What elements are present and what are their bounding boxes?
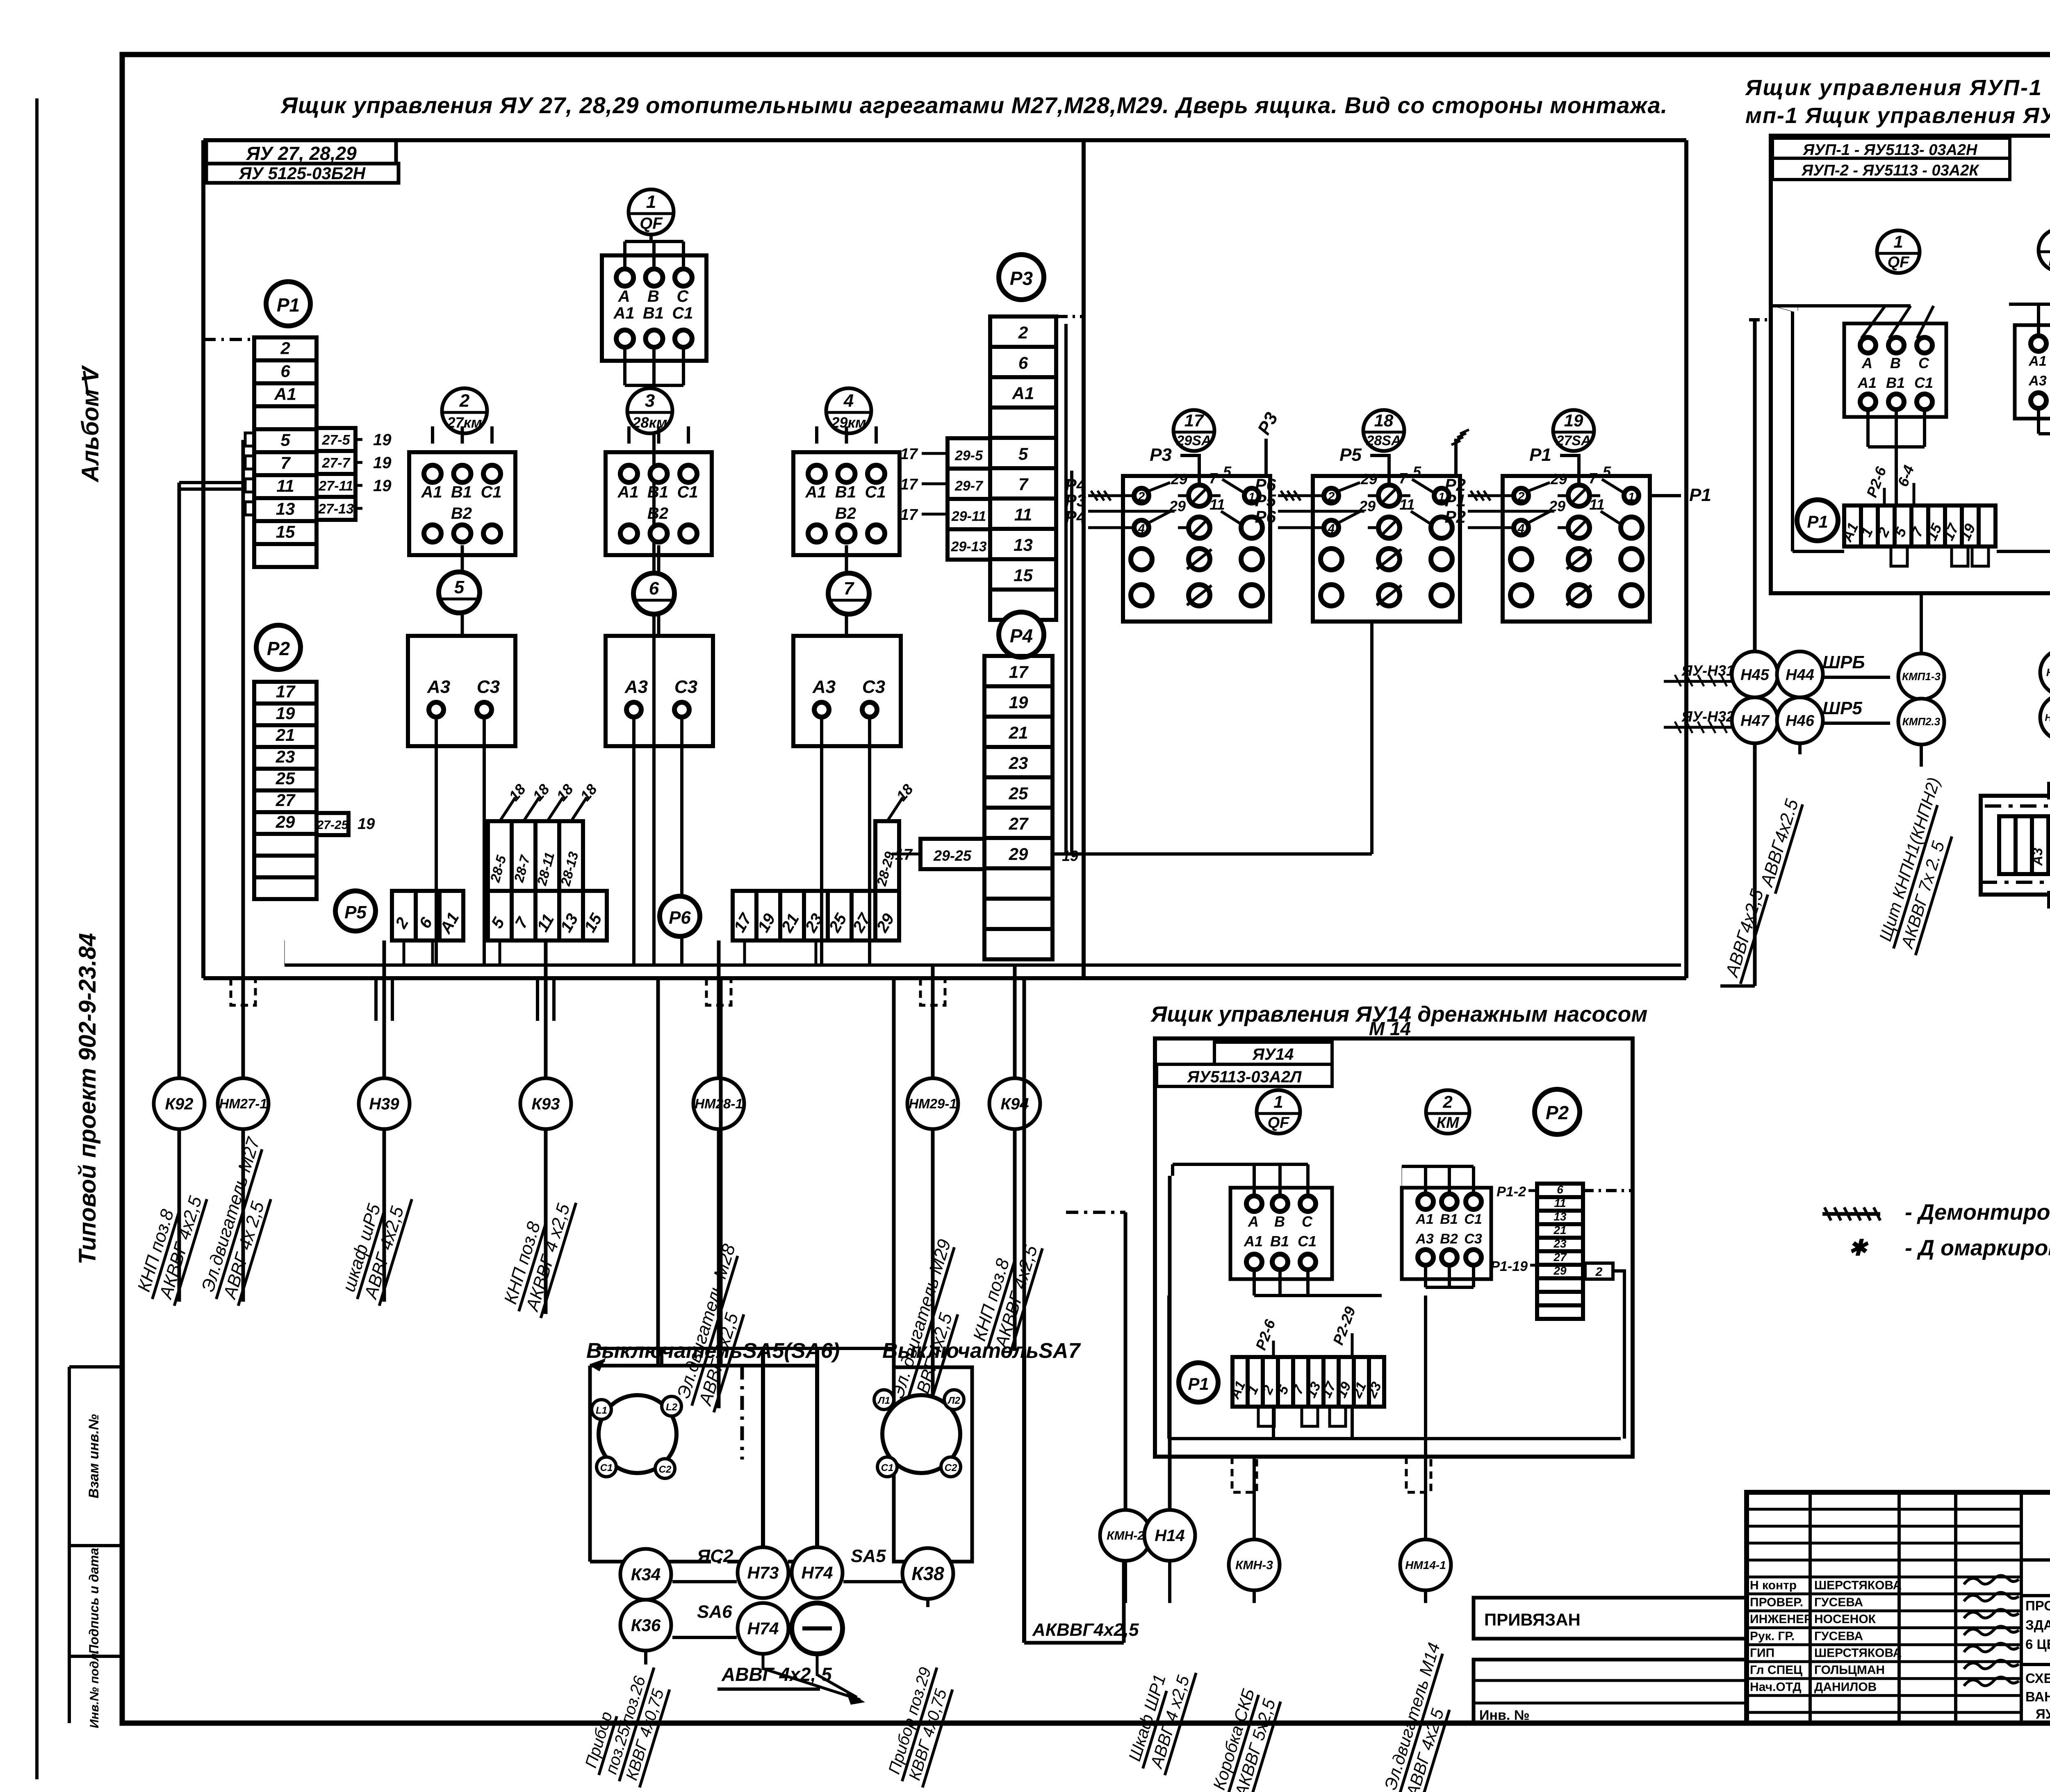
svg-text:21: 21 — [276, 725, 295, 745]
svg-text:29-7: 29-7 — [954, 478, 984, 494]
svg-text:6: 6 — [280, 361, 290, 380]
svg-text:ГОЛЬЦМАН: ГОЛЬЦМАН — [1814, 1663, 1885, 1677]
svg-text:А1: А1 — [1415, 1211, 1433, 1227]
svg-text:ЯУ 27, 28,29: ЯУ 27, 28,29 — [246, 143, 357, 164]
svg-text:Ящик управления ЯУП-1 п: Ящик управления ЯУП-1 приточным вентилят… — [1745, 75, 2050, 100]
svg-text:ШЕРСТЯКОВА: ШЕРСТЯКОВА — [1814, 1646, 1902, 1660]
svg-text:В2: В2 — [647, 504, 668, 522]
svg-text:13: 13 — [1014, 535, 1033, 554]
svg-text:А3: А3 — [427, 677, 450, 697]
svg-text:29: 29 — [1553, 1264, 1567, 1277]
svg-text:С1: С1 — [1298, 1233, 1317, 1250]
svg-text:В1: В1 — [1270, 1233, 1289, 1250]
svg-text:В1: В1 — [1440, 1211, 1458, 1227]
svg-text:11: 11 — [1399, 496, 1414, 513]
svg-text:А3: А3 — [624, 677, 648, 697]
svg-text:С1: С1 — [672, 304, 693, 322]
svg-text:17: 17 — [276, 682, 296, 701]
svg-text:19: 19 — [276, 704, 295, 723]
svg-text:В1: В1 — [1886, 374, 1905, 391]
svg-text:29: 29 — [276, 812, 295, 831]
svg-text:SA6: SA6 — [697, 1602, 732, 1622]
svg-text:В1: В1 — [647, 483, 668, 501]
svg-text:27-11: 27-11 — [318, 478, 353, 494]
svg-text:27-13: 27-13 — [318, 501, 354, 517]
svg-text:А: А — [618, 287, 630, 305]
svg-text:Подпись и дата: Подпись и дата — [87, 1548, 101, 1654]
svg-text:ИНЖЕНЕР: ИНЖЕНЕР — [1750, 1612, 1812, 1626]
svg-text:QF: QF — [1888, 254, 1910, 271]
svg-text:А1: А1 — [617, 483, 638, 501]
svg-text:29: 29 — [1549, 498, 1565, 515]
svg-text:А1: А1 — [613, 304, 635, 322]
svg-text:Н74: Н74 — [747, 1619, 779, 1638]
svg-text:В: В — [1274, 1213, 1285, 1230]
svg-text:27: 27 — [1009, 814, 1029, 833]
svg-text:Р2: Р2 — [1546, 1102, 1569, 1123]
svg-text:19: 19 — [358, 815, 375, 833]
svg-text:19: 19 — [1009, 692, 1028, 712]
svg-text:А3: А3 — [2028, 373, 2047, 389]
svg-text:Р6: Р6 — [1255, 507, 1276, 526]
svg-text:11: 11 — [276, 476, 294, 495]
svg-text:С3: С3 — [674, 677, 697, 697]
svg-text:11: 11 — [1589, 496, 1604, 513]
svg-text:ПРОВЕР.: ПРОВЕР. — [1750, 1596, 1803, 1609]
svg-text:1: 1 — [646, 192, 656, 212]
svg-text:Нач.ОТД: Нач.ОТД — [1750, 1680, 1802, 1694]
svg-text:29-5: 29-5 — [954, 448, 983, 463]
svg-text:ЯУП-2 - ЯУ5113 - 03А2К: ЯУП-2 - ЯУ5113 - 03А2К — [1801, 162, 1979, 179]
svg-text:Р5: Р5 — [1339, 445, 1362, 465]
svg-text:КМН-3: КМН-3 — [1235, 1559, 1273, 1572]
svg-text:КМ: КМ — [2048, 252, 2050, 269]
svg-text:27-5: 27-5 — [321, 432, 350, 448]
svg-text:В2: В2 — [451, 504, 472, 522]
svg-text:C1: C1 — [600, 1462, 613, 1473]
svg-text:В: В — [1890, 355, 1901, 371]
svg-text:1: 1 — [1438, 490, 1445, 503]
svg-text:27: 27 — [1553, 1251, 1567, 1264]
svg-text:2: 2 — [1138, 490, 1145, 503]
svg-text:ЗДАНИЕ С ЧВОЗДУХОДУВКАМИ ТВ-80: ЗДАНИЕ С ЧВОЗДУХОДУВКАМИ ТВ-80-1,6 И — [2025, 1617, 2050, 1633]
svg-text:А1: А1 — [1244, 1233, 1263, 1250]
svg-text:С: С — [1302, 1213, 1313, 1230]
svg-text:ШЕРСТЯКОВА: ШЕРСТЯКОВА — [1814, 1579, 1902, 1592]
svg-text:4: 4 — [1517, 522, 1525, 535]
svg-text:27-25: 27-25 — [317, 818, 349, 832]
svg-text:QF: QF — [1268, 1114, 1290, 1132]
svg-text:29-25: 29-25 — [933, 847, 972, 864]
svg-text:НМ28-1: НМ28-1 — [695, 1096, 743, 1111]
svg-text:✱: ✱ — [1848, 1236, 1869, 1260]
svg-text:Н14: Н14 — [1155, 1527, 1184, 1545]
svg-text:29-13: 29-13 — [951, 539, 987, 554]
svg-text:17: 17 — [1184, 411, 1204, 430]
svg-text:ЯУ5113-03А2Л: ЯУ5113-03А2Л — [1187, 1068, 1302, 1086]
svg-text:17: 17 — [900, 506, 918, 524]
svg-text:23: 23 — [1553, 1237, 1567, 1250]
svg-text:КМ: КМ — [1436, 1114, 1459, 1132]
svg-text:Л2: Л2 — [947, 1395, 960, 1406]
svg-text:ДАНИЛОВ: ДАНИЛОВ — [1814, 1680, 1877, 1694]
svg-text:2: 2 — [1595, 1265, 1603, 1279]
svg-text:7: 7 — [280, 453, 291, 472]
svg-text:Взам инв.№: Взам инв.№ — [86, 1414, 102, 1498]
svg-text:7: 7 — [844, 578, 855, 599]
svg-text:АКВВГ4х2,5: АКВВГ4х2,5 — [1032, 1620, 1139, 1640]
svg-text:19: 19 — [373, 431, 392, 449]
svg-text:6: 6 — [1557, 1183, 1563, 1196]
svg-text:ЯУ 5125-03Б2Н: ЯУ 5125-03Б2Н — [239, 164, 366, 183]
svg-text:11: 11 — [1209, 496, 1225, 513]
svg-text:НОСЕНОК: НОСЕНОК — [1814, 1612, 1876, 1626]
svg-text:С: С — [676, 287, 689, 305]
svg-text:НМ29-1: НМ29-1 — [909, 1096, 957, 1111]
svg-text:Н45: Н45 — [1740, 666, 1770, 683]
svg-text:29SA: 29SA — [1176, 433, 1211, 449]
svg-text:7: 7 — [1209, 470, 1218, 487]
svg-text:4: 4 — [1138, 522, 1145, 535]
svg-text:29: 29 — [1360, 471, 1377, 487]
svg-text:Р1: Р1 — [277, 294, 300, 316]
svg-text:1: 1 — [1628, 490, 1635, 503]
svg-text:С1: С1 — [677, 483, 698, 501]
svg-text:К93: К93 — [531, 1095, 560, 1113]
svg-text:27SA: 27SA — [1556, 433, 1591, 449]
svg-text:Р3: Р3 — [1010, 268, 1033, 289]
svg-text:25: 25 — [276, 769, 295, 788]
svg-text:Р4: Р4 — [1065, 507, 1086, 526]
svg-text:Р1-2: Р1-2 — [1496, 1184, 1526, 1200]
svg-text:мп-1 Ящик управления ЯУП-2: мп-1 Ящик управления ЯУП-2 приточным вен… — [1745, 103, 2050, 128]
svg-text:К92: К92 — [165, 1095, 193, 1113]
svg-text:17: 17 — [900, 476, 918, 493]
svg-text:К38: К38 — [911, 1563, 944, 1584]
svg-text:Р2: Р2 — [267, 638, 290, 659]
svg-text:1: 1 — [1273, 1092, 1283, 1111]
svg-text:19: 19 — [373, 477, 392, 495]
svg-text:1: 1 — [1248, 490, 1255, 503]
svg-text:29: 29 — [1171, 471, 1187, 487]
svg-text:L1: L1 — [596, 1405, 607, 1416]
svg-text:4: 4 — [843, 391, 854, 411]
svg-text:23: 23 — [1009, 753, 1028, 772]
svg-text:Н47: Н47 — [1740, 712, 1770, 729]
svg-text:В2: В2 — [1440, 1231, 1458, 1247]
svg-text:5: 5 — [1223, 463, 1232, 480]
svg-text:L2: L2 — [666, 1402, 678, 1413]
svg-text:29: 29 — [1009, 844, 1028, 863]
svg-text:Р4: Р4 — [1010, 625, 1033, 647]
svg-text:Н46: Н46 — [1786, 712, 1815, 729]
svg-text:11: 11 — [1014, 505, 1032, 524]
svg-text:Р2: Р2 — [1445, 507, 1466, 526]
svg-text:НМ27-1: НМ27-1 — [219, 1096, 267, 1111]
svg-text:Альбом V: Альбом V — [77, 365, 104, 483]
svg-text:НМ14-1: НМ14-1 — [1405, 1559, 1446, 1571]
svg-text:29: 29 — [1550, 471, 1567, 487]
svg-text:ЯС2: ЯС2 — [697, 1546, 733, 1566]
svg-text:СХЕМА ПОДКЛЮЧЕНИЯ ЭЛЕКТРООБОРУ: СХЕМА ПОДКЛЮЧЕНИЯ ЭЛЕКТРООБОРУДО- — [2025, 1671, 2050, 1686]
svg-text:Рук. ГР.: Рук. ГР. — [1750, 1629, 1795, 1643]
svg-text:17: 17 — [1009, 662, 1029, 681]
svg-text:Гл СПЕЦ: Гл СПЕЦ — [1750, 1663, 1802, 1677]
svg-text:А3: А3 — [812, 677, 836, 697]
svg-text:ВыключательSA5(SA6): ВыключательSA5(SA6) — [586, 1339, 840, 1363]
svg-text:1: 1 — [1893, 232, 1903, 251]
svg-text:25: 25 — [1009, 783, 1028, 803]
svg-text:Р1: Р1 — [1188, 1374, 1209, 1394]
svg-text:28SA: 28SA — [1366, 433, 1401, 449]
svg-text:Н контр: Н контр — [1750, 1579, 1797, 1592]
svg-text:ШР5: ШР5 — [1822, 698, 1862, 718]
svg-text:Н73: Н73 — [747, 1563, 779, 1583]
svg-text:18: 18 — [1374, 411, 1394, 430]
svg-text:5: 5 — [1603, 463, 1611, 480]
svg-text:А3: А3 — [1415, 1231, 1434, 1247]
svg-text:Ящик управления ЯУ 27, 28,29: Ящик управления ЯУ 27, 28,29 отопительны… — [280, 92, 1667, 118]
svg-text:С1: С1 — [481, 483, 501, 501]
svg-text:ЯУ-Н31: ЯУ-Н31 — [1681, 662, 1734, 679]
svg-text:5: 5 — [454, 577, 465, 597]
svg-text:6 ЦЕНТРИФУГАМИ ОГШ-352К-03: 6 ЦЕНТРИФУГАМИ ОГШ-352К-03 — [2025, 1637, 2050, 1652]
svg-text:ГУСЕВА: ГУСЕВА — [1814, 1629, 1863, 1643]
svg-text:21: 21 — [1009, 723, 1028, 742]
svg-text:2: 2 — [459, 391, 470, 411]
svg-text:С3: С3 — [477, 677, 500, 697]
svg-text:Р1-19: Р1-19 — [1490, 1259, 1528, 1274]
svg-text:ЯУ14: ЯУ14 — [1252, 1045, 1294, 1063]
svg-text:Вс: Вс — [2046, 848, 2050, 866]
svg-text:Р3: Р3 — [1150, 445, 1172, 465]
svg-text:С1: С1 — [881, 1462, 894, 1473]
svg-text:В1: В1 — [835, 483, 856, 501]
svg-text:КМП1-3: КМП1-3 — [1902, 670, 1941, 683]
svg-text:С2: С2 — [945, 1462, 957, 1473]
svg-text:7: 7 — [1399, 470, 1408, 487]
svg-text:27: 27 — [276, 790, 296, 810]
svg-text:ВыключательSA7: ВыключательSA7 — [882, 1339, 1081, 1363]
svg-text:19: 19 — [373, 454, 392, 472]
svg-text:В2: В2 — [835, 504, 856, 522]
svg-text:- Демонтировать: - Демонтировать — [1905, 1200, 2050, 1225]
svg-text:С1: С1 — [1914, 374, 1933, 391]
svg-text:С1: С1 — [1464, 1211, 1482, 1227]
svg-text:19: 19 — [1564, 411, 1583, 430]
svg-text:4: 4 — [1328, 522, 1335, 535]
svg-text:ГУСЕВА: ГУСЕВА — [1814, 1596, 1863, 1609]
svg-text:ГИП: ГИП — [1750, 1646, 1774, 1660]
svg-text:Н74: Н74 — [801, 1563, 833, 1583]
svg-text:Р1: Р1 — [1529, 445, 1551, 465]
svg-text:А1: А1 — [2028, 353, 2046, 369]
svg-text:ПРИВЯЗАН: ПРИВЯЗАН — [1484, 1610, 1581, 1629]
svg-text:Л1: Л1 — [877, 1395, 890, 1406]
svg-text:2: 2 — [280, 338, 290, 357]
svg-text:28км: 28км — [632, 414, 667, 431]
svg-text:3: 3 — [645, 391, 655, 411]
svg-text:15: 15 — [1014, 565, 1033, 585]
svg-text:С1: С1 — [865, 483, 886, 501]
svg-text:Р6: Р6 — [669, 908, 691, 928]
svg-text:А: А — [1248, 1213, 1259, 1230]
svg-text:29: 29 — [1359, 498, 1376, 515]
svg-text:С3: С3 — [1464, 1231, 1482, 1247]
svg-text:ШРБ: ШРБ — [1822, 652, 1865, 672]
svg-text:Типовой проект 902-9-23.: Типовой проект 902-9-23.84 — [74, 933, 101, 1265]
svg-text:ЯУП-1, ЯУП-2: ЯУП-1, ЯУП-2 — [2036, 1706, 2050, 1721]
svg-text:М 14: М 14 — [1369, 1018, 1411, 1039]
svg-text:С3: С3 — [862, 677, 885, 697]
svg-text:27-7: 27-7 — [321, 455, 351, 471]
svg-text:5: 5 — [1413, 463, 1421, 480]
svg-text:С: С — [1918, 355, 1929, 371]
svg-text:В1: В1 — [643, 304, 664, 322]
svg-text:В1: В1 — [451, 483, 472, 501]
svg-text:23: 23 — [276, 747, 295, 766]
svg-text:15: 15 — [276, 522, 295, 541]
svg-text:6: 6 — [1018, 353, 1028, 372]
svg-text:6: 6 — [649, 578, 659, 599]
svg-text:К36: К36 — [631, 1616, 661, 1635]
svg-text:А1: А1 — [421, 483, 442, 501]
svg-text:29км: 29км — [831, 414, 866, 431]
svg-text:ЯУП-1 - ЯУ5113- 03А2Н: ЯУП-1 - ЯУ5113- 03А2Н — [1803, 141, 1978, 159]
svg-text:13: 13 — [276, 499, 295, 518]
svg-text:QF: QF — [640, 214, 663, 232]
svg-text:7: 7 — [1589, 470, 1598, 487]
svg-text:- Д омаркировать.: - Д омаркировать. — [1905, 1236, 2050, 1260]
svg-text:НМП2-1: НМП2-1 — [2045, 712, 2050, 723]
svg-text:7: 7 — [1018, 474, 1029, 494]
svg-text:КМН-2: КМН-2 — [1107, 1529, 1144, 1543]
svg-text:2: 2 — [1018, 323, 1028, 342]
svg-text:29: 29 — [1169, 498, 1186, 515]
svg-text:А3: А3 — [2030, 848, 2045, 866]
svg-text:Н44: Н44 — [1786, 666, 1814, 683]
svg-text:2: 2 — [1517, 490, 1525, 503]
svg-text:Р1: Р1 — [1807, 512, 1828, 531]
svg-text:Р1: Р1 — [1689, 485, 1711, 505]
svg-text:ПРОИЗВОДСТВЕННО-ВСПОМОГАТЕЛЬНО: ПРОИЗВОДСТВЕННО-ВСПОМОГАТЕЛЬНОЕ — [2025, 1598, 2050, 1613]
svg-text:17: 17 — [900, 446, 918, 463]
svg-text:Р5: Р5 — [344, 902, 367, 922]
svg-text:А1: А1 — [274, 384, 296, 403]
svg-text:КМП2.3: КМП2.3 — [1902, 715, 1941, 728]
svg-text:А1: А1 — [1857, 374, 1877, 391]
svg-text:29-11: 29-11 — [951, 508, 986, 524]
svg-text:А1: А1 — [1012, 383, 1034, 403]
svg-text:К34: К34 — [631, 1565, 661, 1584]
svg-text:А: А — [1861, 355, 1872, 371]
svg-text:В: В — [647, 287, 659, 305]
svg-text:5: 5 — [1018, 444, 1028, 463]
svg-text:Инв. №: Инв. № — [1479, 1708, 1530, 1723]
svg-text:ВАНИЯ ЯЩИКОВ ЯУ 27,28,29,ЯУ1: ВАНИЯ ЯЩИКОВ ЯУ 27,28,29,ЯУ14, — [2025, 1689, 2050, 1704]
svg-text:Н39: Н39 — [369, 1095, 399, 1113]
svg-text:SA5: SA5 — [851, 1546, 886, 1566]
svg-text:2: 2 — [1442, 1092, 1452, 1111]
svg-text:C2: C2 — [659, 1464, 672, 1475]
svg-text:А1: А1 — [805, 483, 826, 501]
svg-text:ЯУ-Н32: ЯУ-Н32 — [1681, 708, 1734, 725]
svg-text:21: 21 — [1553, 1224, 1566, 1236]
svg-text:27км: 27км — [447, 414, 482, 431]
svg-text:НМП-1: НМП-1 — [2046, 666, 2050, 679]
svg-text:Инв.№ подл.: Инв.№ подл. — [88, 1650, 101, 1728]
svg-text:2: 2 — [1328, 490, 1335, 503]
svg-text:5: 5 — [280, 430, 290, 449]
svg-text:11: 11 — [1554, 1197, 1566, 1209]
svg-text:13: 13 — [1553, 1210, 1567, 1223]
